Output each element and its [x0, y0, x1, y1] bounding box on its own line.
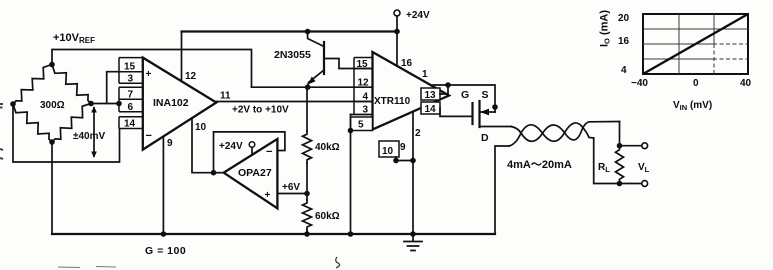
resistor 60k ohm [303, 200, 312, 230]
svg-text:6: 6 [128, 102, 134, 113]
node MOSFET source dot [492, 104, 498, 110]
wire return line to ground rail [495, 146, 509, 234]
svg-text:+24V: +24V [219, 141, 243, 152]
wire emitter node down to divider [306, 87, 308, 131]
resistor bridge arm top-right (300 ohm) [52, 65, 91, 104]
twisted pair line B (return) [509, 123, 594, 146]
wire 60k to ground rail [306, 230, 308, 234]
XTR110 pin 13 wire to pin1 node [440, 85, 448, 94]
XTR110 pin 5 box [351, 117, 373, 131]
svg-text:G: G [461, 89, 469, 101]
node bridge left [10, 101, 16, 107]
node 2N3055 collector on +24V rail [305, 29, 311, 35]
svg-text:13: 13 [425, 90, 437, 101]
svg-text:INA102: INA102 [153, 97, 189, 109]
wire OPA27 output stub [214, 172, 224, 174]
svg-text:9: 9 [167, 138, 173, 149]
node pin9 tie [410, 158, 416, 164]
XTR110 pin 10 box [379, 141, 399, 157]
svg-text:VIN (mV): VIN (mV) [673, 100, 712, 112]
svg-text:60kΩ: 60kΩ [315, 211, 340, 222]
op-amp INA102 body [143, 58, 217, 150]
svg-text:+6V: +6V [282, 182, 300, 193]
svg-text:+24V: +24V [406, 10, 430, 21]
XTR110 pin 1 wire to MOSFET source line [431, 85, 496, 112]
svg-text:OPA27: OPA27 [238, 167, 272, 179]
svg-text:40kΩ: 40kΩ [315, 142, 340, 153]
svg-text:14: 14 [425, 104, 437, 115]
graph gridlines [643, 14, 748, 74]
node bridge bottom [49, 139, 55, 145]
wire +10V_REF: bridge top to emitter bus [52, 50, 252, 88]
INA102 pin 12 supply wire to +24V rail [181, 32, 183, 82]
wire load bottom return to twisted pair [594, 138, 620, 184]
svg-text:16: 16 [618, 36, 630, 47]
scan artifact squiggle [336, 257, 340, 268]
svg-text:2: 2 [415, 128, 421, 139]
svg-text:15: 15 [357, 59, 369, 70]
graph transfer line [643, 14, 748, 74]
svg-text:XTR110: XTR110 [374, 96, 411, 107]
resistor 40k ohm [303, 131, 312, 163]
ground symbol [404, 234, 422, 251]
svg-text:14: 14 [124, 119, 136, 130]
svg-text:4mA〜20mA: 4mA〜20mA [507, 159, 572, 171]
transistor Q1 2N3055 base bar [323, 42, 325, 74]
XTR110 pin 9 wire [412, 112, 414, 161]
svg-text:−: − [146, 130, 152, 142]
node pin10 tie [393, 158, 399, 164]
svg-text:−40: −40 [631, 78, 648, 89]
MOSFET source lead with arrow [481, 111, 495, 113]
svg-text:20: 20 [618, 13, 630, 24]
wire bridge left node to INA102 pin 14 [13, 104, 120, 162]
resistor bridge arm bottom-right (300 ohm) [52, 104, 91, 143]
scan artifact left edge marks [0, 104, 3, 159]
node ground tap junction [410, 231, 416, 237]
wire ground rail (bottom) [52, 233, 495, 235]
transistor Q1 2N3055 emitter wire with arrow [308, 70, 324, 87]
transistor M1 MOSFET gate bar [471, 103, 473, 124]
wire twisted pair top to load [619, 122, 621, 147]
wire OPA27 noninverting input to +6V node [277, 193, 307, 195]
graph transfer-characteristic frame [643, 14, 748, 74]
wire +24V rail (top) [182, 30, 398, 32]
XTR110 pin 13 box [421, 88, 440, 100]
node pin1/13 junction [445, 82, 451, 88]
scan artifact bottom-left marks [58, 267, 116, 268]
node 2N3055 emitter junction [305, 84, 311, 90]
node junction at INA102 pin7/6 bracket [116, 101, 122, 107]
svg-text:S: S [482, 89, 489, 101]
XTR110 pin 14 wire to MOSFET gate [440, 108, 473, 116]
node pin3/5 ground junction [348, 231, 354, 237]
wire pins 9/10 tie [396, 160, 413, 162]
terminal +24V [394, 10, 400, 16]
svg-text:0: 0 [693, 78, 699, 89]
transistor Q1 2N3055 collector wire [308, 32, 324, 47]
svg-text:2N3055: 2N3055 [274, 49, 311, 61]
wire INA102 pin15/3 stub to bridge right wire [107, 72, 120, 104]
node load top junction [617, 143, 623, 149]
INA102 pin 9 wire to ground rail [162, 136, 164, 234]
svg-text:+: + [265, 190, 271, 201]
resistor bridge arm top-left (300 ohm) [13, 65, 52, 105]
svg-text:7: 7 [128, 90, 134, 101]
node pin9 INA ground junction [161, 231, 167, 237]
node bridge top [49, 62, 55, 68]
converter XTR110 body [373, 52, 450, 130]
svg-text:16: 16 [401, 58, 413, 69]
node OPA27 output junction [211, 170, 217, 176]
node 60k ground junction [304, 231, 310, 237]
XTR110 pin 10 wire [395, 157, 397, 161]
wire bridge right node to INA102 pins 7/6 [91, 103, 119, 105]
wire pin9 node to ground rail [412, 161, 414, 235]
svg-text:10: 10 [382, 146, 394, 157]
svg-text:4: 4 [363, 92, 369, 103]
svg-text:4: 4 [621, 65, 627, 76]
wire emitter bus to XTR110 pin 12 [252, 86, 373, 88]
svg-text:40: 40 [740, 78, 752, 89]
node +6V divider junction [304, 191, 310, 197]
INA102 pin 10 wire to OPA27 output [192, 118, 214, 173]
wire +24V terminal to XTR110 pin 16 [396, 16, 398, 66]
wire XTR110 pins 3/5 to ground rail [350, 115, 352, 235]
svg-text:300Ω: 300Ω [40, 100, 65, 111]
svg-text:+2V to +10V: +2V to +10V [232, 105, 289, 116]
node bridge right [88, 101, 94, 107]
INA102 left pin box column [119, 58, 143, 129]
svg-text:−: − [266, 146, 272, 158]
wire 40k to +6V node [306, 163, 308, 200]
node +24V rail junction [394, 29, 400, 35]
svg-text:9: 9 [400, 142, 406, 153]
node pin3/5 bracket junction [348, 128, 354, 134]
svg-text:G = 100: G = 100 [145, 245, 186, 257]
transistor M1 MOSFET channel bar [478, 101, 480, 127]
svg-text:10: 10 [195, 122, 207, 133]
terminal output bottom [620, 183, 642, 185]
XTR110 left pin column lines [354, 58, 373, 115]
MOSFET drain wire to twisted pair top [480, 126, 512, 128]
svg-text:±40mV: ±40mV [73, 131, 106, 142]
svg-text:15: 15 [124, 62, 136, 73]
svg-text:D: D [481, 132, 489, 144]
resistor R_L [616, 146, 624, 183]
XTR110 pin 14 box [421, 102, 440, 114]
svg-text:+: + [146, 69, 152, 80]
resistor bridge arm bottom-left (300 ohm) [13, 104, 52, 142]
svg-text:3: 3 [128, 74, 134, 85]
svg-text:12: 12 [185, 71, 197, 82]
svg-text:1: 1 [422, 69, 428, 80]
wire OPA27 feedback loop output to inverting input [214, 132, 285, 173]
transistor Q1 2N3055 base wire to XTR110 pin 15 [324, 59, 373, 69]
twisted pair line A (from drain) [511, 122, 620, 142]
op-amp OPA27 body [224, 139, 278, 208]
INA102 pin 11 output wire to XTR110 pin 4 [216, 101, 372, 103]
wire bridge bottom node to ground rail [51, 142, 53, 234]
XTR110 pin 3 wire stub [351, 114, 373, 116]
node load bottom junction [617, 181, 623, 187]
OPA27 +24V supply terminal [249, 142, 255, 148]
svg-text:5: 5 [358, 120, 364, 131]
svg-text:11: 11 [220, 91, 231, 102]
terminal output top [620, 145, 642, 147]
annotation arrow +/-40mV [93, 108, 95, 156]
svg-text:12: 12 [358, 78, 370, 89]
